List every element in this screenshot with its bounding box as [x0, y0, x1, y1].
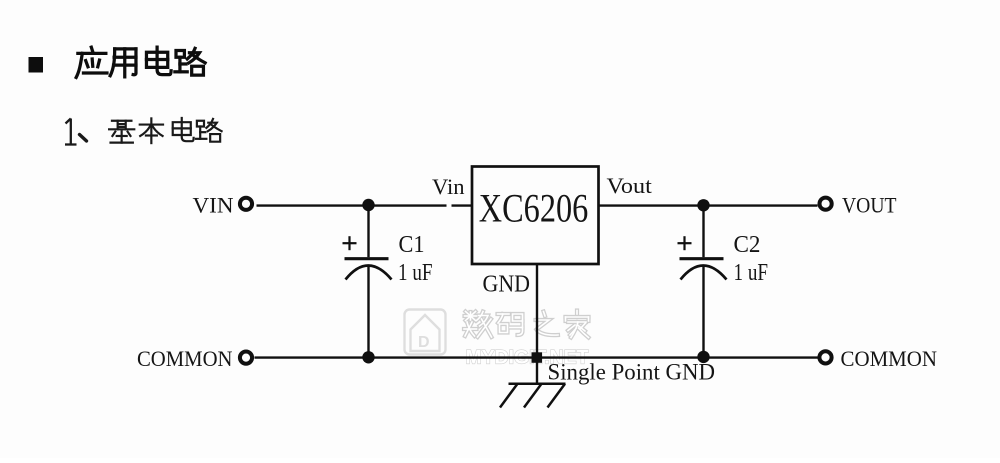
subtitle char 本 — [140, 118, 163, 143]
title char 路 — [175, 48, 205, 75]
subtitle char 电 — [173, 118, 194, 141]
svg-text:1 uF: 1 uF — [398, 260, 433, 286]
svg-text:VOUT: VOUT — [842, 193, 897, 218]
title char 电 — [146, 47, 171, 74]
junction C2 bottom — [697, 351, 709, 363]
junction C1 bottom — [362, 351, 374, 363]
svg-text:D: D — [418, 334, 430, 351]
svg-text:C2: C2 — [734, 232, 761, 258]
svg-text:GND: GND — [483, 272, 531, 298]
junction C2 top — [697, 199, 709, 211]
subtitle char 路 — [196, 119, 222, 142]
terminal COMMON right — [819, 351, 831, 363]
capacitor C1 — [343, 206, 392, 358]
capacitor C2 — [678, 206, 727, 357]
subtitle char 基 — [109, 121, 134, 143]
wire bottom rail — [255, 356, 818, 358]
watermark logo — [405, 310, 446, 355]
svg-text:COMMON: COMMON — [137, 346, 233, 371]
svg-text:Single Point GND: Single Point GND — [548, 359, 716, 384]
terminal COMMON left — [240, 352, 252, 364]
wire GND pin down — [536, 264, 538, 384]
wire VIN to C1 node to Vin pin — [257, 204, 447, 206]
subtitle comma 、 — [80, 135, 87, 142]
svg-text:1 uF: 1 uF — [734, 260, 769, 286]
svg-text:C1: C1 — [399, 232, 425, 258]
junction C1 top — [362, 199, 374, 211]
ground symbol — [500, 384, 566, 408]
title char 应 — [76, 47, 107, 77]
junction GND bottom — [532, 352, 543, 363]
svg-text:XC6206: XC6206 — [479, 186, 589, 231]
svg-text:Vin: Vin — [432, 174, 465, 199]
title bullet square — [29, 57, 44, 73]
svg-text:Vout: Vout — [607, 173, 653, 198]
regulator U1 XC6206 body — [472, 167, 599, 265]
title char 用 — [110, 49, 136, 77]
subtitle numeral 1 — [65, 119, 77, 145]
terminal VIN — [240, 198, 252, 210]
watermark text 数码之家 — [464, 311, 589, 338]
svg-text:COMMON: COMMON — [841, 346, 938, 371]
terminal VOUT — [820, 198, 832, 210]
svg-text:VIN: VIN — [193, 193, 234, 218]
wire Vout pin to VOUT — [599, 204, 818, 206]
wire Vin pin stub — [452, 204, 474, 206]
